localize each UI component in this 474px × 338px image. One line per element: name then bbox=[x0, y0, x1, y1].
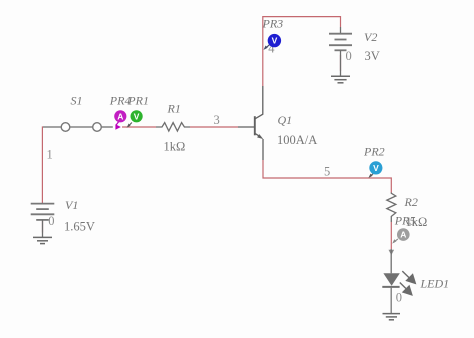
svg-text:Q1: Q1 bbox=[278, 113, 293, 127]
svg-text:LED1: LED1 bbox=[420, 277, 450, 291]
svg-text:V: V bbox=[373, 163, 379, 173]
svg-text:3: 3 bbox=[214, 113, 220, 127]
svg-text:0: 0 bbox=[346, 49, 352, 63]
svg-text:R2: R2 bbox=[404, 195, 418, 209]
svg-text:3V: 3V bbox=[365, 49, 380, 63]
svg-text:1: 1 bbox=[47, 147, 53, 161]
svg-text:V: V bbox=[134, 111, 140, 121]
svg-text:5: 5 bbox=[324, 165, 330, 179]
svg-text:0: 0 bbox=[48, 214, 54, 228]
svg-text:A: A bbox=[117, 111, 123, 121]
svg-text:PR3: PR3 bbox=[262, 17, 284, 31]
svg-text:PR1: PR1 bbox=[127, 93, 149, 107]
svg-text:1.65V: 1.65V bbox=[64, 219, 95, 233]
svg-text:V2: V2 bbox=[364, 30, 377, 44]
svg-text:R1: R1 bbox=[167, 102, 181, 116]
svg-text:100A/A: 100A/A bbox=[277, 133, 317, 147]
svg-text:PR4: PR4 bbox=[109, 93, 131, 107]
svg-text:A: A bbox=[400, 230, 406, 240]
svg-text:V: V bbox=[272, 36, 278, 46]
svg-text:PR2: PR2 bbox=[363, 145, 385, 159]
svg-text:S1: S1 bbox=[71, 94, 83, 108]
svg-text:V1: V1 bbox=[65, 198, 78, 212]
svg-text:PR5: PR5 bbox=[394, 214, 416, 228]
svg-text:0: 0 bbox=[396, 290, 402, 304]
svg-text:1kΩ: 1kΩ bbox=[164, 140, 186, 154]
